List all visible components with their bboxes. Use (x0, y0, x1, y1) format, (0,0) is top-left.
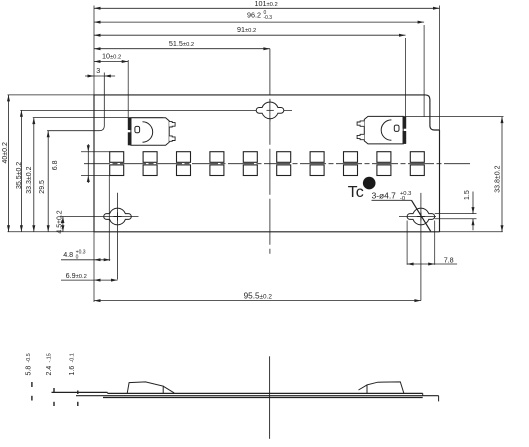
dim 6.8 line (87, 144, 89, 183)
hole A crosshair (114, 216, 122, 218)
dim 4.8 extension (108, 176, 110, 261)
dim 96.2 right extension (423, 25, 425, 117)
dim 96.2 line (94, 21, 424, 23)
svg-text:4.5±0.2: 4.5±0.2 (56, 210, 63, 233)
wire side: right end vertical (438, 396, 440, 402)
component side bump1 (left connector profile) (127, 382, 163, 394)
svg-text:3-ø4.7: 3-ø4.7 (372, 190, 397, 200)
svg-text:1.5: 1.5 (464, 190, 471, 200)
label 3-dia4.7 underline leader (372, 199, 412, 201)
svg-text:10±0.2: 10±0.2 (102, 52, 121, 61)
dim 29.5 line (47, 131, 49, 232)
svg-text:0: 0 (76, 255, 79, 261)
dim 51.5±0.2 line (94, 48, 270, 50)
svg-text:Tc: Tc (348, 184, 364, 201)
dim 40±0.2 line (8, 95, 10, 232)
dim 6.8 extension lines (81, 151, 110, 153)
svg-text:35.5±0.2: 35.5±0.2 (16, 162, 23, 189)
hole B horizontal centerline (399, 216, 436, 218)
svg-text:33.8±0.2: 33.8±0.2 (494, 165, 501, 192)
dim 7.8 extensions (406, 221, 408, 265)
dim 1.5 arrows (472, 192, 474, 214)
svg-text:95.5±0.2: 95.5±0.2 (244, 292, 273, 301)
connector J2 (right) (364, 116, 403, 143)
wire: connector top line / 33.3 extension (33, 117, 163, 119)
wire: hole C horizontal centerline / 35.5 extension (20, 109, 292, 111)
wire: left edge extension to dims (93, 6, 95, 95)
svg-text:-0.1: -0.1 (70, 353, 76, 362)
dim 3 line (85, 75, 115, 77)
dim 35.5±0.2 line (20, 110, 22, 231)
svg-text:5.8: 5.8 (26, 366, 33, 376)
svg-text:-0.5: -0.5 (26, 353, 32, 362)
dim 1.5 extensions (435, 213, 477, 215)
svg-text:33.3±0.2: 33.3±0.2 (26, 166, 33, 193)
wire side: middle line (76, 395, 439, 397)
svg-text:4.8: 4.8 (63, 250, 73, 259)
svg-text:-.15: -.15 (47, 353, 53, 362)
svg-text:2.4: 2.4 (46, 366, 53, 376)
wire: right edge extension to 101 dim (439, 6, 441, 131)
wire side: bottom line (103, 397, 423, 399)
wire: board top edge (94, 94, 425, 96)
wire: board bottom edge (94, 231, 440, 233)
svg-text:-0: -0 (400, 196, 405, 202)
wire: left edge extension to 95.5 dim (93, 232, 95, 302)
hole C (top-center) keyhole (256, 102, 284, 119)
dim 4.8 line (61, 259, 110, 261)
hole C vertical centerline through (269, 100, 271, 122)
svg-text:96.2: 96.2 (247, 10, 261, 19)
dim 10±0.2 line (94, 61, 128, 63)
dim 7.8 line (407, 263, 457, 265)
wire side: PCB right step (422, 393, 424, 395)
wire: top edge extension left (8, 94, 95, 96)
svg-text:91±0.2: 91±0.2 (237, 25, 256, 34)
wire: bottom edge extension left (8, 231, 95, 233)
svg-text:29.5: 29.5 (39, 180, 46, 194)
dim 91±0.2 line (94, 34, 406, 36)
wire side: top line left part (52, 391, 108, 393)
node center: side view centerline (269, 356, 271, 439)
dim 2.4 ticks (53, 388, 55, 393)
svg-text:101±0.2: 101±0.2 (255, 0, 278, 8)
dim 5.8 ticks (31, 382, 33, 387)
dim 1.6 ticks (77, 391, 79, 395)
dim 10 right extension (127, 60, 129, 118)
hole B crosshair (417, 216, 425, 218)
wire: board left edge (93, 95, 95, 232)
wire side: top line step (107, 392, 109, 393)
wire: LED string centerline (84, 163, 471, 165)
svg-text:7.8: 7.8 (444, 255, 454, 264)
hole C inner centerline dash (267, 109, 274, 111)
hole A (bottom-left) keyhole (104, 208, 132, 225)
svg-text:6.9±0.2: 6.9±0.2 (66, 271, 87, 280)
hole A horizontal centerline / 4.5 extension (60, 216, 139, 218)
svg-text:51.5±0.2: 51.5±0.2 (169, 39, 194, 48)
connector J1 (left) (131, 118, 169, 146)
svg-text:6.8: 6.8 (52, 160, 59, 170)
dim 101±0.2 line (94, 7, 440, 9)
wire side: PCB top line (108, 392, 423, 394)
svg-text:1.6: 1.6 (69, 366, 76, 376)
hole B (bottom-right) keyhole (407, 208, 435, 225)
hole A vertical centerline (117, 193, 119, 280)
dim 33.8±0.2 line (501, 117, 503, 232)
wire: 29.5 bent extension line (47, 73, 104, 131)
dim 95.5±0.2 line (94, 300, 421, 302)
dim 4.5±0.2 line (62, 217, 64, 232)
node Tc thermal point dot (363, 177, 376, 190)
wire: board top-right step edge (425, 95, 439, 130)
svg-text:3: 3 (96, 66, 100, 75)
dim 91 right extension (405, 38, 407, 117)
dim 6.9±0.2 line (61, 279, 118, 281)
pads: LED solder pads 2x10 grid (110, 152, 124, 163)
wire: bottom edge extension right (440, 231, 503, 233)
dim 33.3±0.2 line (33, 118, 35, 232)
wire: board right edge (439, 130, 441, 232)
component side bump2 (right connector profile) (367, 382, 404, 394)
svg-text:40±0.2: 40±0.2 (2, 142, 9, 163)
node center: vertical centerline of top view (269, 49, 271, 254)
label 3-dia4.7 leader diagonal (412, 200, 431, 231)
hole B vertical centerline (420, 193, 422, 301)
wire: right connector top line / 33.8 extension (372, 116, 504, 118)
svg-text:-0.3: -0.3 (263, 15, 272, 21)
